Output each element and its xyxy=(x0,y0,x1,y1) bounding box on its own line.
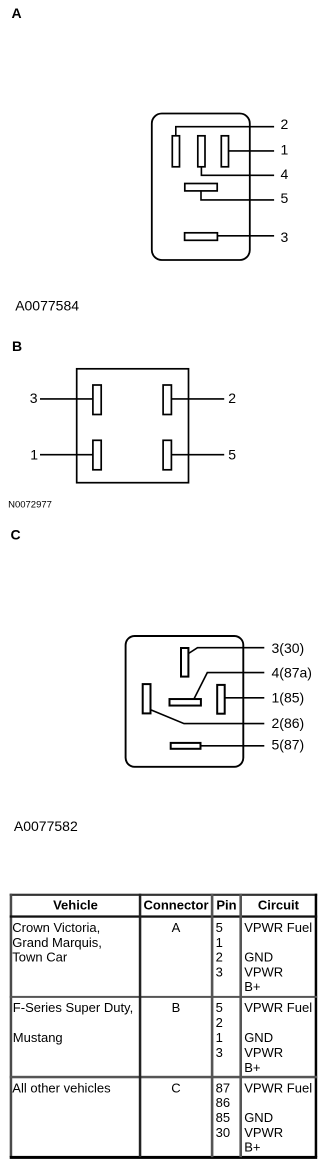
table outer top border xyxy=(10,894,318,896)
connector B body xyxy=(77,369,189,483)
svg-text:C: C xyxy=(11,527,21,543)
svg-text:Mustang: Mustang xyxy=(13,1030,63,1045)
wire pin2 to label 2 xyxy=(176,127,274,136)
svg-text:VPWR: VPWR xyxy=(244,964,283,979)
relay C body xyxy=(126,636,244,767)
wire pin1(85) xyxy=(225,697,264,699)
table row B xyxy=(13,1000,312,1075)
wire pin4 to label 4 xyxy=(201,167,274,175)
connector B pin 2 (top-right) xyxy=(163,385,171,415)
svg-text:Pin: Pin xyxy=(216,897,236,912)
svg-text:Grand Marquis,: Grand Marquis, xyxy=(12,935,102,950)
svg-text:3: 3 xyxy=(216,1045,223,1060)
svg-text:2: 2 xyxy=(228,390,236,406)
svg-text:1: 1 xyxy=(216,935,223,950)
svg-text:A0077582: A0077582 xyxy=(14,818,78,834)
table row divider B|C xyxy=(10,1076,318,1079)
wire pin3 to label 3 xyxy=(218,235,275,237)
svg-text:VPWR Fuel: VPWR Fuel xyxy=(244,1000,312,1015)
wire pin3(30) xyxy=(189,648,265,654)
svg-text:2: 2 xyxy=(216,1015,223,1030)
svg-text:2: 2 xyxy=(216,950,223,965)
wire pin2(86) xyxy=(150,710,264,724)
wire pin1 left xyxy=(40,454,93,456)
svg-text:5: 5 xyxy=(228,446,236,462)
svg-text:5(87): 5(87) xyxy=(272,736,305,752)
svg-text:Vehicle: Vehicle xyxy=(53,897,98,912)
connector B pin 5 (bottom-right) xyxy=(163,440,171,470)
relay A pin 4 xyxy=(198,136,205,167)
table row A xyxy=(12,920,312,994)
table column divider Vehicle|Connector xyxy=(139,894,142,1157)
svg-text:Circuit: Circuit xyxy=(258,897,300,912)
svg-text:3: 3 xyxy=(281,229,289,245)
svg-text:GND: GND xyxy=(244,1030,273,1045)
svg-text:A0077584: A0077584 xyxy=(15,298,79,314)
svg-text:Connector: Connector xyxy=(144,897,209,912)
svg-text:F-Series Super Duty,: F-Series Super Duty, xyxy=(13,1000,133,1015)
svg-text:All other vehicles: All other vehicles xyxy=(12,1080,111,1095)
svg-text:1(85): 1(85) xyxy=(272,690,305,706)
connector B pin 1 (bottom-left) xyxy=(93,440,101,470)
wire pin5(87) xyxy=(201,745,265,747)
relay C pin 3(30) xyxy=(181,648,188,677)
svg-text:5: 5 xyxy=(216,1000,223,1015)
svg-text:Town Car: Town Car xyxy=(12,950,68,965)
svg-text:5: 5 xyxy=(281,190,289,206)
relay C pin 4(87a) xyxy=(170,699,201,706)
svg-text:1: 1 xyxy=(216,1030,223,1045)
svg-text:1: 1 xyxy=(30,446,38,462)
svg-text:1: 1 xyxy=(281,142,289,158)
wire pin1 to label 1 xyxy=(229,150,275,152)
table outer left border xyxy=(10,894,13,1157)
svg-text:N0072977: N0072977 xyxy=(8,499,52,510)
relay A pin 3 xyxy=(185,233,218,241)
svg-text:GND: GND xyxy=(244,950,273,965)
svg-text:C: C xyxy=(171,1080,180,1095)
svg-text:A: A xyxy=(172,920,181,935)
connector B pin 3 (top-left) xyxy=(93,385,101,415)
relay A pin 1 xyxy=(221,136,228,167)
relay C pin 1(85) xyxy=(217,685,225,714)
svg-text:Crown Victoria,: Crown Victoria, xyxy=(12,920,100,935)
svg-text:B+: B+ xyxy=(244,979,260,994)
relay C pin 2(86) xyxy=(143,684,151,713)
svg-text:B: B xyxy=(172,1000,181,1015)
svg-text:2(86): 2(86) xyxy=(272,715,305,731)
svg-text:VPWR Fuel: VPWR Fuel xyxy=(244,1080,312,1095)
svg-text:B+: B+ xyxy=(244,1140,260,1155)
svg-text:VPWR: VPWR xyxy=(244,1045,283,1060)
relay A pin 2 xyxy=(172,136,179,167)
svg-text:3(30): 3(30) xyxy=(272,640,305,656)
table row C xyxy=(12,1080,312,1154)
svg-text:4: 4 xyxy=(281,166,289,182)
table borders xyxy=(10,894,318,1159)
svg-text:3: 3 xyxy=(30,390,38,406)
wire pin5 to label 5 xyxy=(201,191,274,200)
svg-text:B: B xyxy=(12,338,22,354)
table column divider Pin|Circuit xyxy=(239,894,242,1157)
relay A body xyxy=(152,114,250,261)
svg-text:87: 87 xyxy=(216,1080,230,1095)
relay A pin 5 xyxy=(185,184,217,191)
table header divider xyxy=(10,915,318,917)
svg-text:GND: GND xyxy=(244,1110,273,1125)
svg-text:30: 30 xyxy=(216,1125,230,1140)
svg-text:86: 86 xyxy=(216,1095,230,1110)
relay C pin 5(87) xyxy=(171,743,201,749)
wire pin5 right xyxy=(172,454,225,456)
table row divider A|B xyxy=(10,996,318,998)
svg-text:A: A xyxy=(12,5,22,21)
wire pin2 right xyxy=(172,398,225,400)
svg-text:B+: B+ xyxy=(244,1060,260,1075)
wire pin4(87a) xyxy=(194,673,264,699)
table header text xyxy=(53,897,300,912)
table outer right border xyxy=(315,894,318,1157)
svg-text:2: 2 xyxy=(281,116,289,132)
table column divider Connector|Pin xyxy=(211,894,214,1157)
svg-text:4(87a): 4(87a) xyxy=(272,665,312,681)
svg-text:5: 5 xyxy=(216,920,223,935)
svg-text:85: 85 xyxy=(216,1110,230,1125)
svg-text:3: 3 xyxy=(216,964,223,979)
table outer bottom border xyxy=(10,1156,318,1159)
svg-text:VPWR: VPWR xyxy=(244,1125,283,1140)
svg-text:VPWR Fuel: VPWR Fuel xyxy=(244,920,312,935)
wire pin3 left xyxy=(40,398,93,400)
